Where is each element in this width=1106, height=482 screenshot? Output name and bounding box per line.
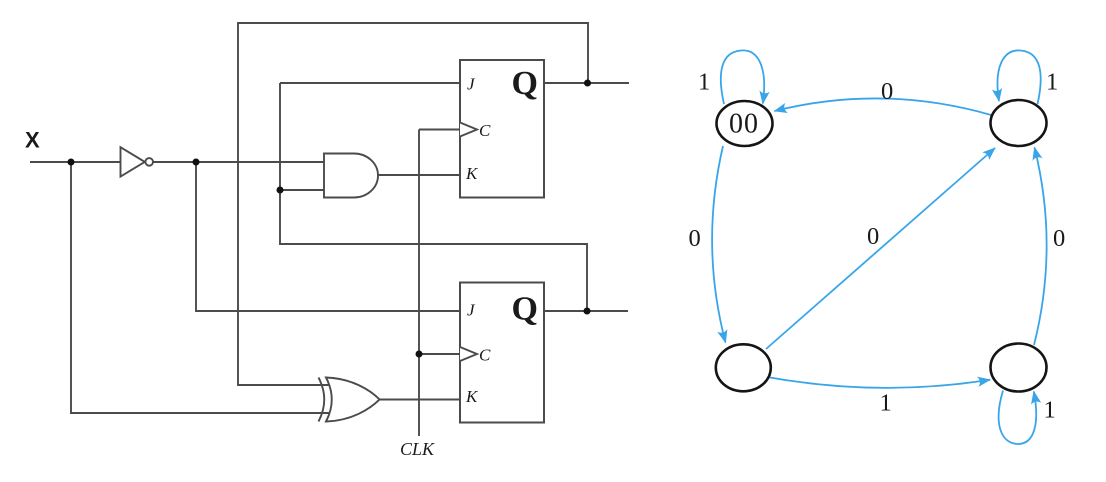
XOR gate — [319, 378, 325, 422]
NOT gate inverter — [121, 147, 145, 176]
svg-text:1: 1 — [1044, 397, 1056, 424]
edge 01 to 00 — [775, 98, 992, 115]
svg-text:0: 0 — [689, 225, 701, 252]
state bottom-left — [716, 344, 771, 391]
wire Q1 output — [544, 82, 629, 84]
wire NOT output to AND top input — [153, 161, 324, 163]
edge self-loop state 01 — [997, 50, 1040, 104]
svg-text:00: 00 — [729, 109, 759, 140]
svg-text:C: C — [479, 121, 491, 140]
svg-text:K: K — [465, 164, 479, 183]
svg-text:K: K — [465, 387, 479, 406]
svg-text:1: 1 — [698, 69, 710, 96]
wire top feedback Q1 to XOR top input — [238, 23, 588, 385]
flip-flop U1 clock triangle — [460, 123, 477, 137]
junction node Q1 output — [584, 80, 591, 87]
edge 10 to 01 diagonal — [766, 148, 995, 349]
junction node x' branch — [193, 159, 200, 166]
edge self-loop state 00 — [721, 50, 764, 104]
wire Q2 feedback to J1 and AND lower input — [280, 83, 587, 311]
wire x' vertical branch to J2 — [196, 162, 460, 311]
svg-text:0: 0 — [867, 223, 879, 250]
junction node Q2 output — [584, 308, 591, 315]
wire X vertical branch down — [71, 162, 330, 413]
junction node AND lower input — [277, 187, 284, 194]
svg-text:CLK: CLK — [400, 439, 435, 459]
wire CLK vertical — [418, 130, 420, 437]
flip-flop U1 box — [460, 60, 544, 198]
svg-text:Q: Q — [512, 65, 538, 102]
edge 00 to 10 — [712, 146, 725, 343]
edge 10 to 11 — [770, 378, 990, 388]
svg-text:1: 1 — [1046, 69, 1058, 96]
state 00 — [717, 101, 773, 146]
wire AND lower input — [280, 189, 324, 191]
svg-text:X: X — [25, 128, 40, 153]
junction node X branch — [68, 159, 75, 166]
state bottom-right — [991, 344, 1047, 392]
wire C1 input — [419, 129, 460, 131]
flip-flop U2 box — [460, 283, 544, 423]
state diagram — [712, 50, 1047, 444]
edge 11 to 01 — [1034, 148, 1047, 346]
wire Q2 output — [544, 310, 628, 312]
svg-text:C: C — [479, 346, 491, 365]
svg-text:Q: Q — [512, 291, 538, 328]
edge self-loop state 11 — [999, 391, 1037, 445]
wire C2 input — [419, 353, 460, 355]
wire X input to NOT gate — [30, 161, 120, 163]
wire XOR output to K2 — [380, 399, 460, 401]
wire J1 input — [280, 82, 460, 84]
state top-right — [991, 100, 1047, 146]
svg-text:0: 0 — [1053, 225, 1065, 252]
junction node CLK to C2 — [416, 351, 423, 358]
wire AND output to K1 — [378, 174, 460, 176]
AND gate — [324, 154, 378, 198]
svg-text:0: 0 — [881, 78, 893, 105]
svg-text:1: 1 — [880, 390, 892, 417]
flip-flop U2 clock triangle — [460, 347, 477, 361]
